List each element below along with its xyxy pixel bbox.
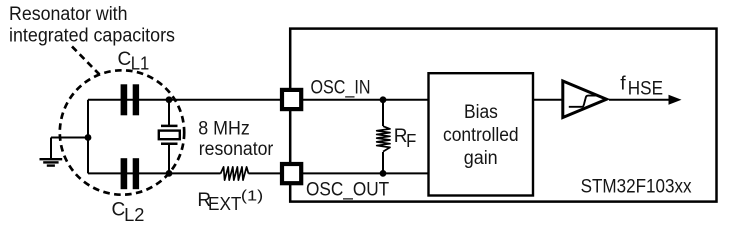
svg-text:F: F <box>406 130 416 151</box>
svg-text:f: f <box>620 72 626 94</box>
svg-text:C: C <box>118 49 132 70</box>
svg-text:L1: L1 <box>131 53 150 74</box>
svg-text:OSC_OUT: OSC_OUT <box>306 180 390 201</box>
svg-text:(1): (1) <box>241 188 263 204</box>
svg-text:EXT: EXT <box>208 193 241 214</box>
svg-text:STM32F103xx: STM32F103xx <box>581 177 692 198</box>
svg-text:integrated capacitors: integrated capacitors <box>9 26 175 47</box>
svg-text:Resonator with: Resonator with <box>9 4 128 25</box>
svg-text:controlled: controlled <box>443 125 519 146</box>
svg-text:OSC_IN: OSC_IN <box>311 78 371 99</box>
svg-text:gain: gain <box>464 148 498 169</box>
svg-text:resonator: resonator <box>199 139 274 160</box>
svg-text:Bias: Bias <box>464 102 498 123</box>
svg-text:HSE: HSE <box>628 78 663 100</box>
svg-text:L2: L2 <box>124 204 144 225</box>
svg-text:8 MHz: 8 MHz <box>198 118 250 139</box>
